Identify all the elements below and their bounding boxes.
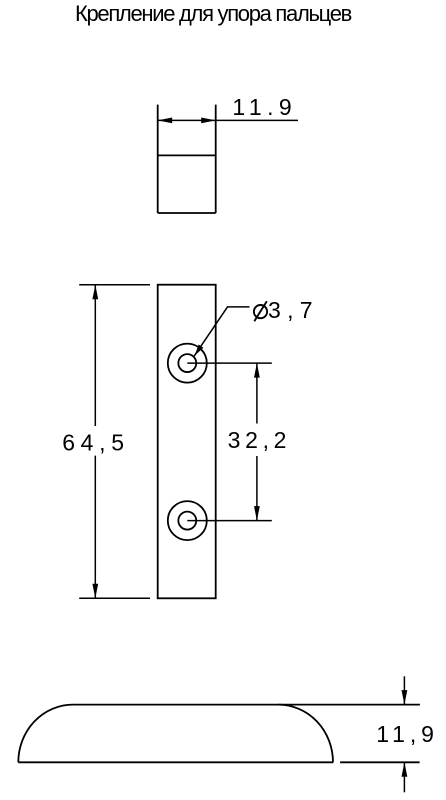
side view top edge + extension line <box>73 704 420 706</box>
top view right edge / extension line <box>215 105 217 213</box>
dimension line 32,2 lower segment <box>256 456 258 521</box>
dimension line from upper hole center <box>187 362 271 364</box>
dimension line 64,5 upper segment <box>94 285 96 426</box>
diameter symbol of hole callout <box>254 301 267 321</box>
leader line for hole diameter <box>194 307 250 356</box>
side view right arc <box>278 705 333 763</box>
top view face edge <box>158 154 216 156</box>
svg-text:Крепление для упора пальцев: Крепление для упора пальцев <box>75 1 352 26</box>
arrowhead up at bottom line <box>402 762 408 777</box>
svg-text:64,5: 64,5 <box>62 430 130 456</box>
arrowhead up of 32,2 <box>254 363 260 378</box>
dimension 11,9 lower arrow line <box>403 762 405 792</box>
side view bottom edge <box>18 761 333 763</box>
arrowhead down of 64,5 <box>92 584 98 599</box>
svg-text:11.9: 11.9 <box>232 94 297 120</box>
hole H1 outer circle <box>168 344 207 383</box>
dimension line 11.9 (width) <box>158 119 298 121</box>
front view outline rectangle <box>158 285 216 599</box>
arrowhead down at top line <box>402 690 408 705</box>
dimension line 64,5 lower segment <box>94 456 96 599</box>
dimension line 32,2 upper segment <box>256 363 258 423</box>
side view left arc <box>18 705 73 763</box>
hole H1 inner circle <box>178 354 196 372</box>
svg-text:11,9: 11,9 <box>376 721 439 747</box>
extension line top for 64,5 <box>79 284 150 286</box>
svg-text:3,7: 3,7 <box>268 297 319 323</box>
top view bottom edge <box>158 212 216 214</box>
dimension line from lower hole center <box>187 520 271 522</box>
bottom extension line for 11,9 <box>340 761 420 763</box>
arrowhead up of 64,5 <box>92 285 98 300</box>
extension line bottom for 64,5 <box>79 597 150 599</box>
top view left edge / extension line <box>157 105 159 213</box>
arrowhead left of width dim <box>158 118 173 124</box>
hole H2 inner circle <box>178 512 196 530</box>
hole H2 outer circle <box>168 501 207 540</box>
svg-text:32,2: 32,2 <box>228 427 292 453</box>
leader arrowhead at hole <box>195 344 204 355</box>
arrowhead down of 32,2 <box>254 506 260 520</box>
arrowhead right of width dim <box>201 118 216 124</box>
dimension 11,9 upper arrow line <box>403 676 405 704</box>
